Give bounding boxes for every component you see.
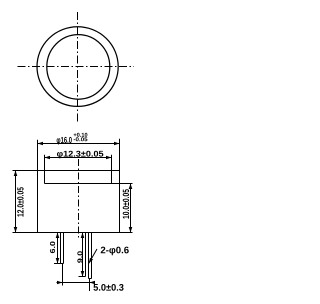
left dimension line 12.0: [15, 171, 17, 233]
pin 2 left edge + 9.0 dimension line: [82, 233, 84, 277]
arrowhead Ø16 left: [38, 142, 44, 146]
vertical centerline (top view): [77, 12, 79, 122]
pin 3 bottom: [89, 278, 92, 280]
leader line 2-Ø0.6: [89, 249, 97, 263]
arrowhead 12.0 top: [14, 171, 18, 177]
arrowhead leader 2-Ø0.6: [89, 258, 93, 264]
bottom dim extension from pin1: [62, 264, 64, 286]
recess wall right + Ø12.3 extension: [111, 155, 113, 184]
text 10.0±0.05 (rotated): [123, 189, 129, 218]
body left edge + Ø16 extension: [37, 140, 39, 233]
bottom dim extension from pin3: [89, 279, 91, 291]
front view centerline: [78, 159, 80, 238]
pin 2 right edge: [85, 233, 87, 277]
text 5.0±0.3: [93, 284, 123, 291]
arrowhead 10.0 top: [129, 184, 133, 190]
pin 1 left edge: [60, 233, 62, 264]
pin 3 left edge: [88, 233, 90, 279]
inner circle (top view, Ø12.3): [47, 35, 110, 100]
text 12.0±0.05 (rotated): [17, 187, 23, 216]
pin 2 bottom + 9.0 tick: [79, 276, 86, 278]
arrowhead 6.0 bottom: [56, 258, 60, 264]
arrowhead 9.0 top: [81, 233, 85, 239]
tolerance -0.05: [74, 137, 88, 141]
pin 3 right edge: [91, 233, 93, 279]
arrowhead 5.0 left (outside): [57, 281, 63, 285]
body right edge + Ø16 extension: [119, 139, 121, 233]
text 2-Ø0.6: [101, 247, 129, 256]
arrowhead Ø16 right: [114, 142, 120, 146]
outer circle (top view, Ø16.0): [37, 27, 118, 107]
text Ø12.3±0.05: [57, 151, 103, 159]
tolerance +0.10: [74, 133, 88, 137]
dimension line 6.0: [57, 233, 59, 264]
right dimension line 10.0: [130, 184, 132, 233]
horizontal centerline (top view): [18, 66, 135, 68]
arrowhead Ø12.3 left: [45, 156, 51, 160]
arrowhead 6.0 top: [56, 233, 60, 239]
recess floor + right dim extension: [45, 183, 133, 185]
pin 1 bottom + 6.0 tick: [54, 263, 64, 265]
text 9.0 (rotated): [77, 251, 82, 263]
dimension line Ø12.3: [45, 157, 112, 159]
arrowhead 9.0 bottom: [81, 271, 85, 277]
arrowhead 10.0 bottom: [129, 227, 133, 233]
body bottom line with extensions: [13, 232, 133, 234]
text 6.0 (rotated): [50, 242, 55, 254]
arrowhead 12.0 bottom: [14, 227, 18, 233]
dimension line 5.0: [57, 282, 96, 284]
dimension line Ø16.0: [38, 143, 120, 145]
recess wall left + Ø12.3 extension: [44, 155, 46, 184]
pin 1 right edge: [63, 233, 65, 264]
arrowhead Ø12.3 right: [106, 156, 112, 160]
arrowhead 5.0 right (outside): [90, 281, 96, 285]
text Ø16.0: [57, 137, 72, 145]
front view top face: [13, 170, 120, 172]
